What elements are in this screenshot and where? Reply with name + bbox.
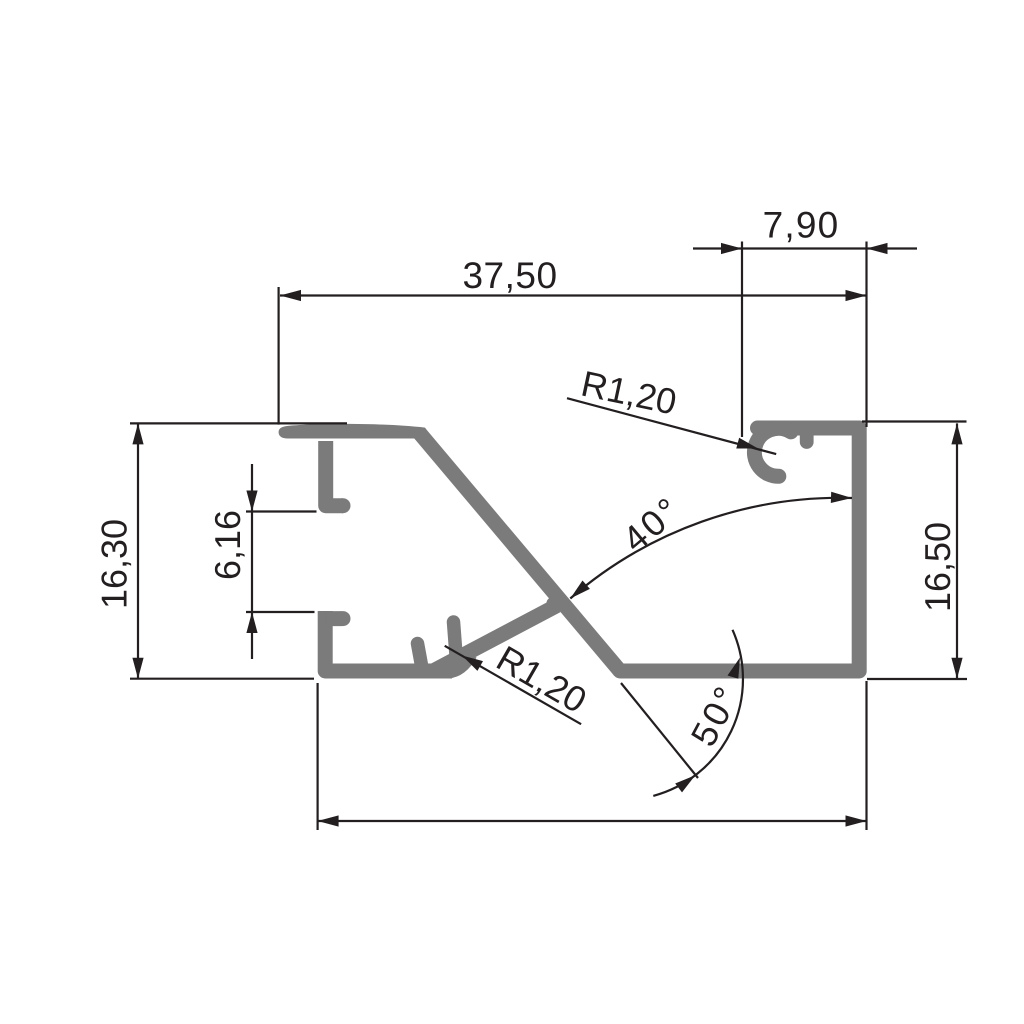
- dimension line 37,50: [280, 294, 867, 296]
- arrowhead 16,30 top: [132, 423, 143, 444]
- extension line bottom of 6,16: [246, 611, 315, 613]
- dimension line 7,90: [693, 247, 917, 249]
- profile: top-left hat flange: [279, 424, 432, 439]
- arc of 40 degree dimension: [570, 498, 852, 599]
- arrowhead bottom dim left: [318, 815, 339, 826]
- profile: upper hanging stub with foot: [326, 441, 343, 506]
- arrowhead 16,50 top: [951, 423, 962, 444]
- profile: lower-left channel wall and bottom bar: [325, 611, 452, 671]
- leader line R1,20 bottom: [445, 646, 581, 724]
- profile: small nub under top bar: [800, 432, 814, 449]
- extension line top of 16,30: [130, 422, 347, 424]
- extension line top of 16,50: [862, 420, 967, 422]
- arrowhead 6,16 upper (points down): [246, 491, 257, 512]
- dimension line bottom (unlabeled): [318, 820, 867, 822]
- extension line left of 37,50: [278, 287, 280, 425]
- profile: fillet at web junction notch: [547, 598, 558, 609]
- arrowhead 50deg at diagonal ext (points up-right): [675, 775, 695, 792]
- profile: lower channel foot: [325, 611, 342, 626]
- extension line bottom-right of bottom dim: [865, 681, 867, 830]
- arrowhead R1,20 bottom leader: [462, 656, 483, 671]
- extension line bottom of 16,30: [130, 678, 314, 680]
- extension line bottom-left of bottom dim: [317, 683, 319, 830]
- dimension line 16,50: [956, 423, 958, 678]
- arc of 50 degree dimension: [653, 630, 743, 796]
- extension line bottom of 16,50: [867, 678, 967, 680]
- extension line of 50 degree angle: [621, 683, 698, 778]
- profile: gasket bump 1: [418, 644, 423, 669]
- extension line right shared 37,50 / 7,90: [865, 242, 867, 428]
- extension line top of 6,16: [246, 510, 317, 512]
- arrowhead 50deg at bottom bar (points up): [728, 658, 741, 679]
- svg-text:16,50: 16,50: [917, 522, 958, 612]
- arrowhead R1,20 top leader: [736, 438, 758, 449]
- dimension line 6,16: [251, 464, 253, 659]
- profile: gasket bump 2: [454, 622, 458, 668]
- svg-text:6,16: 6,16: [207, 510, 248, 580]
- arrowhead 40deg at junction: [570, 581, 590, 599]
- extension line left of 7,90: [741, 242, 743, 438]
- arrowhead 37,50 right: [846, 290, 867, 301]
- profile: screw-port hook curl: [754, 428, 790, 476]
- arrowhead bottom dim right: [846, 815, 867, 826]
- profile: bar end fillet into rising web: [440, 654, 470, 671]
- arrowhead 7,90 left (points right): [721, 243, 742, 254]
- leader line R1,20 top: [567, 398, 776, 454]
- profile: falling diagonal web: [420, 433, 621, 671]
- arrowhead 6,16 lower (points up): [246, 612, 257, 633]
- svg-text:37,50: 37,50: [462, 255, 557, 296]
- arrowhead 40deg at right wall: [831, 492, 852, 503]
- arrowhead 37,50 left: [280, 290, 301, 301]
- svg-text:7,90: 7,90: [763, 205, 840, 246]
- svg-text:16,30: 16,30: [94, 519, 135, 609]
- arrowhead 7,90 right (points left): [867, 243, 888, 254]
- profile: right box section (top bar, right wall, bottom bar): [620, 428, 859, 671]
- profile: upper stub foot tip: [336, 498, 351, 513]
- profile: rising diagonal web: [433, 606, 557, 672]
- arrowhead 16,50 bottom: [951, 658, 962, 679]
- arrowhead 16,30 bottom: [132, 658, 143, 679]
- profile: lower channel foot tip: [336, 611, 351, 626]
- dimension line 16,30: [137, 423, 139, 678]
